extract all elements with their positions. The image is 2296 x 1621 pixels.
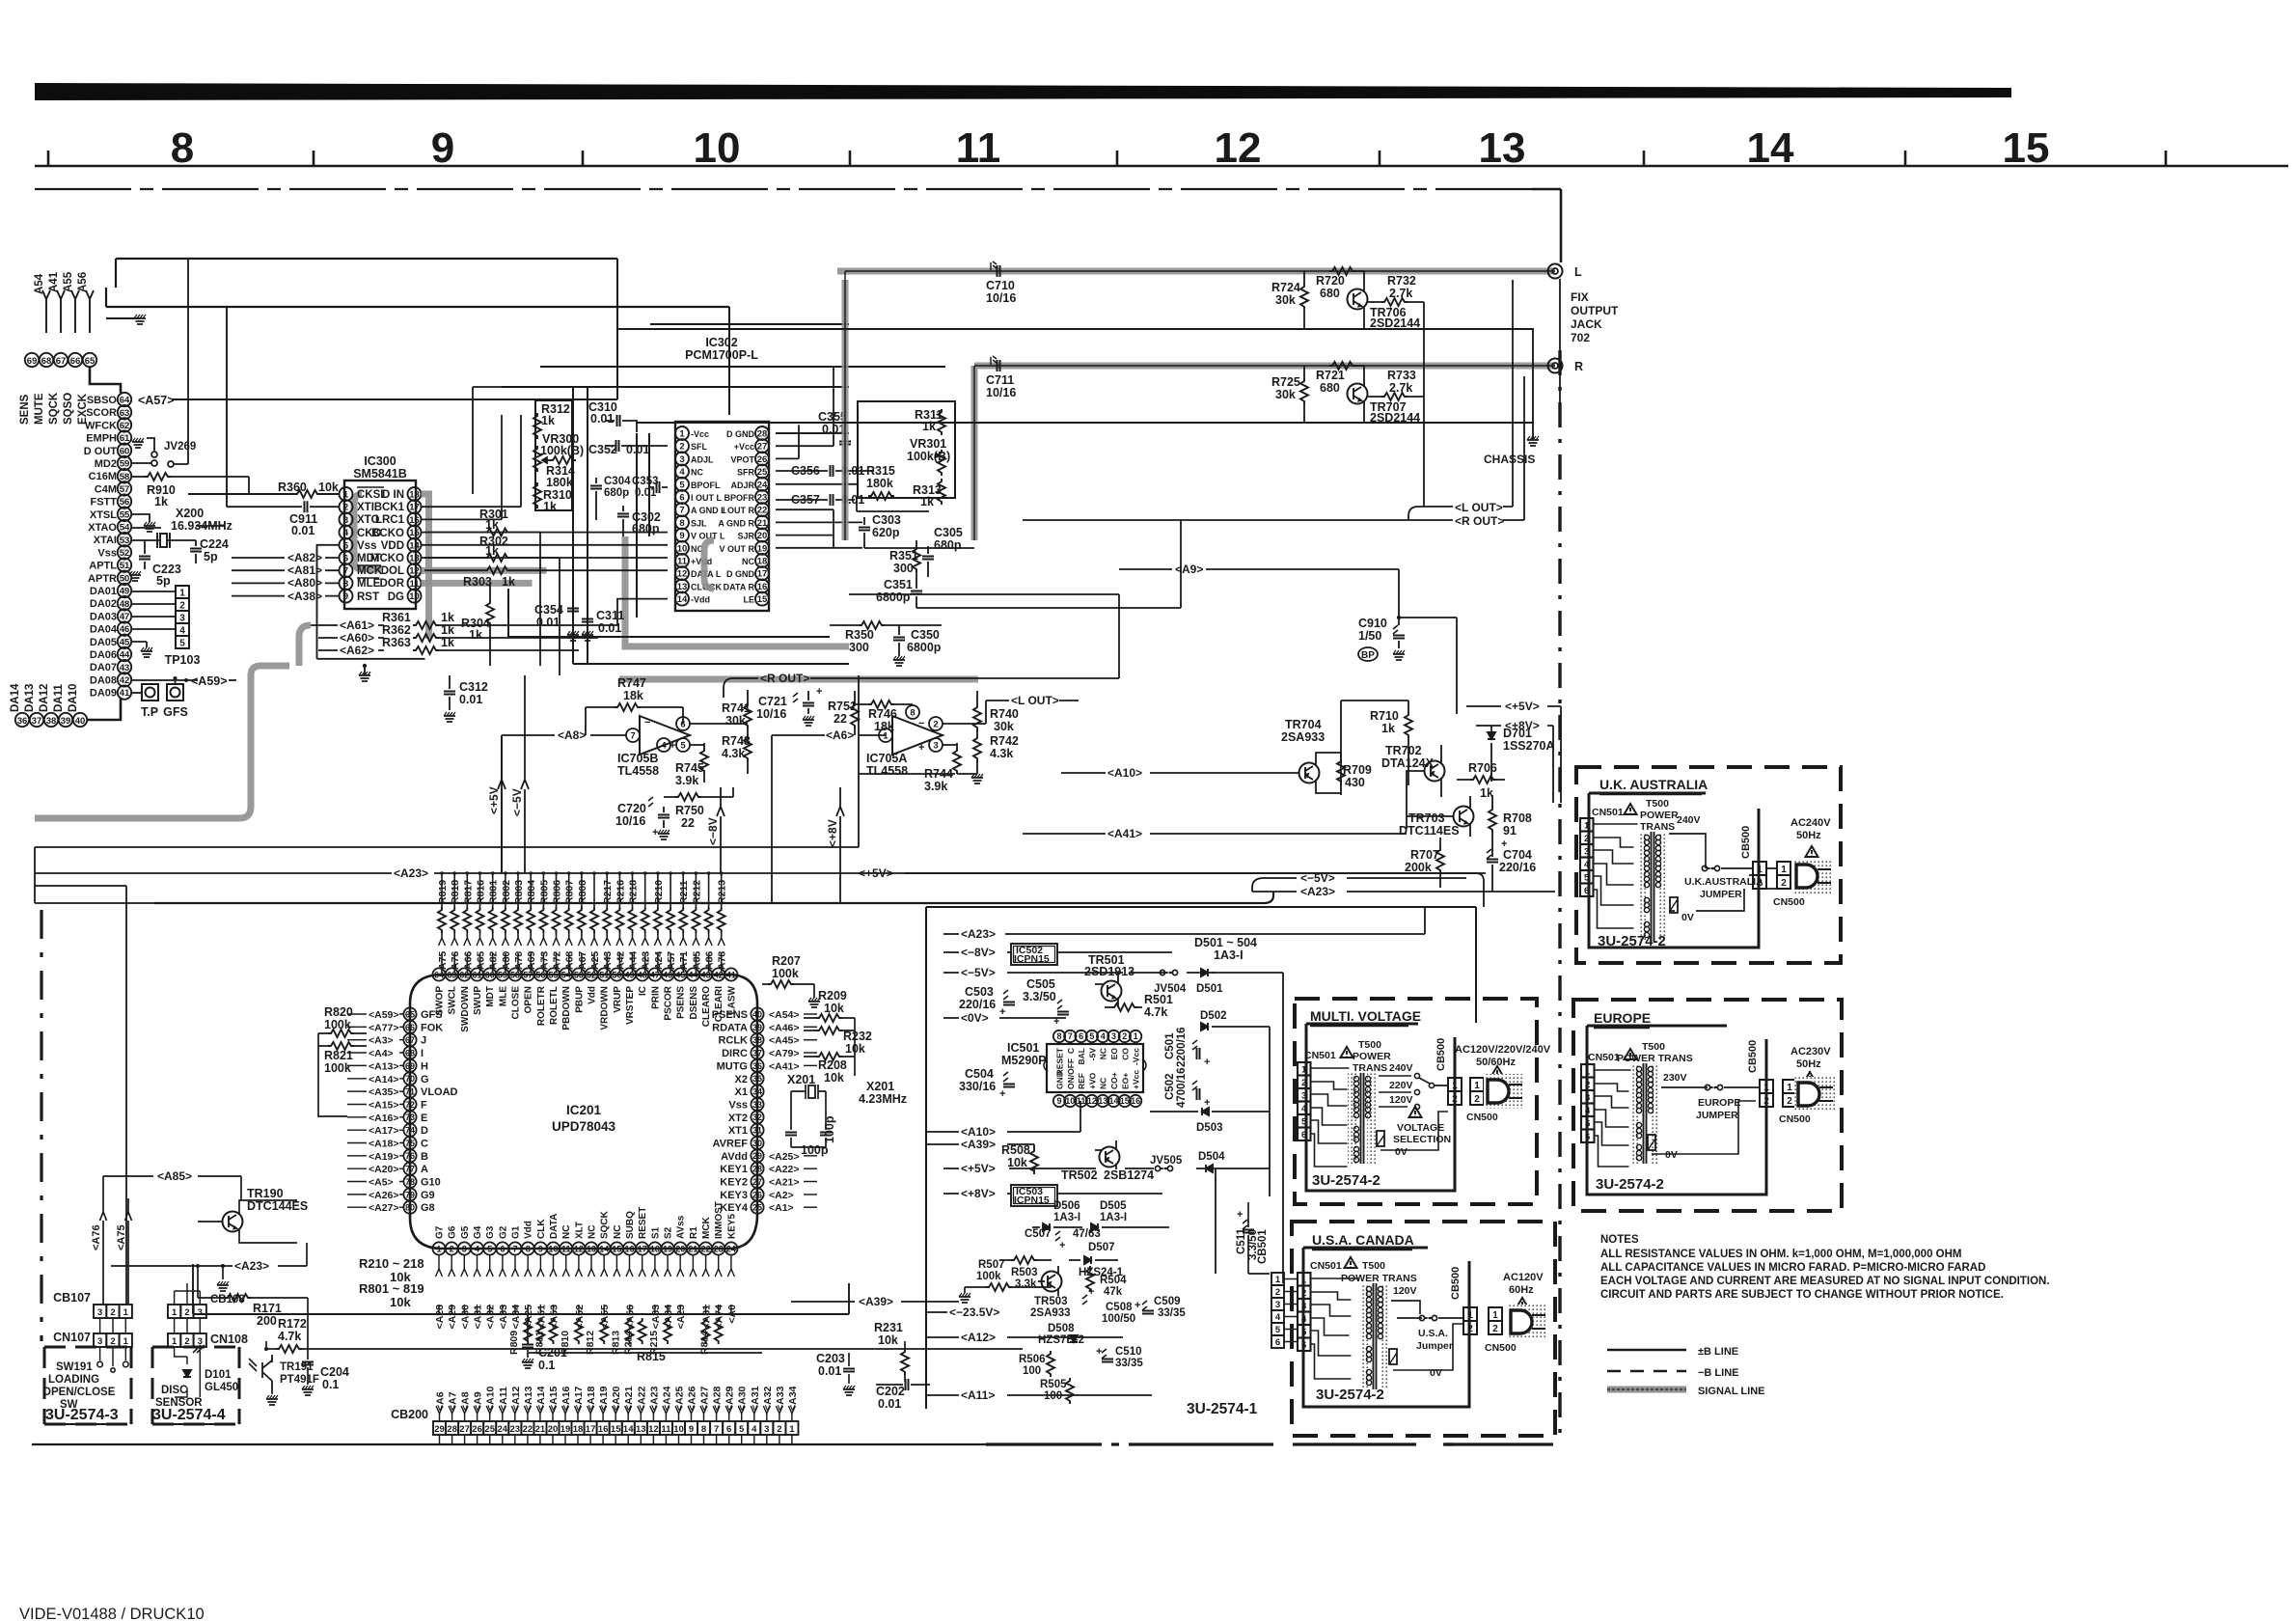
- resistor R706 1k: [1457, 761, 1505, 800]
- svg-text:7: 7: [343, 566, 348, 577]
- capacitor C310 0.01: [588, 400, 637, 432]
- svg-text:+: +: [1204, 1057, 1210, 1068]
- IC201 bottom pin row 1-24: [432, 1242, 737, 1254]
- svg-text:R172: R172: [278, 1317, 307, 1331]
- svg-text:+: +: [1059, 1240, 1065, 1251]
- svg-text:1: 1: [172, 1336, 178, 1347]
- CN501 wiring: [1311, 1068, 1350, 1167]
- svg-text:39: 39: [61, 716, 71, 727]
- svg-text:+Vcc: +Vcc: [734, 442, 754, 452]
- node A23: [943, 907, 1425, 941]
- svg-text:220/16: 220/16: [959, 998, 996, 1011]
- svg-text:DOL: DOL: [381, 565, 404, 577]
- svg-text:R816: R816: [476, 880, 487, 904]
- svg-text:1: 1: [172, 1307, 178, 1318]
- svg-text:B: B: [421, 1151, 428, 1163]
- svg-text:R733: R733: [1387, 369, 1416, 382]
- svg-text:<A14>: <A14>: [369, 1074, 399, 1085]
- svg-text:<A20: <A20: [611, 1386, 622, 1411]
- svg-text:4: 4: [475, 1244, 479, 1253]
- svg-text:1/50: 1/50: [1358, 629, 1381, 643]
- svg-text:<L OUT>: <L OUT>: [1011, 694, 1059, 707]
- svg-text:TL4558: TL4558: [866, 764, 908, 778]
- svg-text:R817: R817: [462, 880, 474, 904]
- svg-text:2: 2: [1787, 1096, 1792, 1107]
- svg-text:5: 5: [1089, 1031, 1094, 1041]
- svg-text:13: 13: [587, 1244, 596, 1253]
- svg-text:5: 5: [487, 1244, 492, 1253]
- svg-text:4: 4: [752, 1424, 757, 1435]
- svg-text:<A85>: <A85>: [157, 1169, 192, 1183]
- svg-text:100k(B): 100k(B): [540, 444, 584, 457]
- svg-text:<A75: <A75: [116, 1224, 127, 1250]
- wire bus corner x756: [728, 307, 730, 415]
- svg-text:CN500: CN500: [1485, 1342, 1517, 1354]
- svg-text:R724: R724: [1271, 281, 1300, 294]
- svg-text:17: 17: [409, 503, 420, 513]
- svg-text:+: +: [652, 827, 658, 838]
- svg-text:DA08: DA08: [90, 674, 117, 686]
- svg-text:1SS270A: 1SS270A: [1503, 739, 1555, 753]
- capacitor C511 3.3/50: [1236, 1202, 1270, 1274]
- label X201 4.23MHz: [859, 1080, 907, 1106]
- svg-text:55: 55: [120, 509, 130, 520]
- svg-text:26: 26: [472, 1424, 482, 1435]
- svg-text:A68: A68: [564, 951, 576, 970]
- svg-text:9: 9: [343, 591, 348, 602]
- resistor R710 1k: [1341, 701, 1412, 785]
- svg-text:15: 15: [2003, 124, 2050, 172]
- svg-text:13: 13: [409, 554, 420, 564]
- svg-text:R210: R210: [653, 880, 665, 904]
- svg-text:G9: G9: [421, 1190, 435, 1201]
- svg-text:100: 100: [1023, 1365, 1041, 1377]
- mains plug: [1507, 1305, 1547, 1339]
- svg-text:1A3-I: 1A3-I: [1053, 1212, 1080, 1223]
- svg-text:11: 11: [677, 557, 688, 567]
- svg-text:C508: C508: [1106, 1302, 1133, 1313]
- svg-text:R801 ~ 819: R801 ~ 819: [359, 1281, 424, 1296]
- svg-text:12: 12: [409, 566, 420, 577]
- resistor R508 10k: [1001, 1143, 1038, 1174]
- svg-text:C305: C305: [934, 526, 963, 539]
- svg-text:R363: R363: [382, 636, 411, 649]
- svg-text:34: 34: [752, 1087, 762, 1097]
- svg-text:1: 1: [436, 1244, 441, 1253]
- svg-text:+: +: [918, 742, 924, 754]
- transistor TR190 DTC144ES: [198, 1187, 308, 1243]
- svg-text:R802: R802: [501, 880, 512, 904]
- svg-text:1k: 1k: [920, 495, 934, 508]
- svg-text:44: 44: [688, 970, 697, 979]
- potentiometer VR300 100k(B): [533, 432, 584, 472]
- svg-text:60: 60: [485, 970, 495, 979]
- svg-text:0.01: 0.01: [598, 621, 621, 635]
- node A39: [926, 1138, 1034, 1151]
- svg-text:<A10>: <A10>: [961, 1125, 996, 1139]
- bottom board boundary dash-dot: [986, 1442, 1553, 1445]
- node A41: [1023, 827, 1407, 840]
- transistor TR704 2SA933: [1183, 718, 1341, 793]
- warning triangle: [1345, 1257, 1357, 1268]
- svg-text:R706: R706: [1468, 761, 1497, 775]
- svg-text:R720: R720: [1316, 274, 1345, 288]
- svg-text:12: 12: [677, 569, 688, 580]
- svg-text:H: H: [421, 1060, 428, 1072]
- inner board outline: [1587, 1026, 1766, 1195]
- svg-text:1: 1: [1301, 1275, 1307, 1285]
- svg-text:AVss: AVss: [676, 1215, 687, 1239]
- svg-text:2: 2: [1275, 1287, 1280, 1298]
- resistor R350 300: [830, 621, 942, 654]
- svg-text:LOADING: LOADING: [48, 1374, 99, 1386]
- sheet boundary dash line right: [1558, 279, 1561, 1436]
- svg-text:J: J: [421, 1035, 426, 1047]
- svg-text:<A30: <A30: [459, 1305, 471, 1330]
- label D501-504: [1194, 936, 1257, 962]
- svg-text:CB108: CB108: [210, 1294, 245, 1305]
- MULTI. VOLTAGE region box: [1295, 999, 1537, 1204]
- resistor R313 1k: [913, 479, 945, 508]
- svg-text:C351: C351: [884, 578, 913, 591]
- svg-text:G7: G7: [435, 1225, 446, 1239]
- svg-text:NC: NC: [588, 1225, 598, 1239]
- svg-text:R740: R740: [990, 707, 1019, 721]
- svg-text:−: −: [918, 718, 924, 729]
- svg-text:30k: 30k: [1275, 388, 1296, 401]
- CN501 wiring: [1594, 824, 1638, 928]
- svg-text:73: 73: [405, 1113, 415, 1122]
- svg-text:RDATA: RDATA: [712, 1022, 748, 1033]
- resistor R745 3.9k: [675, 743, 708, 787]
- svg-text:NC: NC: [561, 1225, 572, 1239]
- svg-text:MCK: MCK: [701, 1216, 712, 1239]
- photodiode D101 GL450: [175, 1345, 239, 1397]
- ground near XTSL: [132, 514, 155, 532]
- board label 3U-2574-2: [1316, 1387, 1384, 1403]
- svg-text:R210 ~ 218: R210 ~ 218: [359, 1256, 424, 1271]
- svg-text:<A41>: <A41>: [769, 1060, 800, 1072]
- capacitor C352 0.01: [588, 440, 668, 456]
- svg-text:5: 5: [679, 480, 685, 490]
- capacitor C204 0.1: [302, 1317, 349, 1395]
- mains plug: [1484, 1074, 1524, 1109]
- svg-text:<+8V>: <+8V>: [961, 1187, 996, 1200]
- connector CN500: [1466, 1078, 1498, 1123]
- svg-text:64: 64: [120, 396, 130, 406]
- svg-text:<A31: <A31: [473, 1305, 484, 1330]
- svg-text:NC: NC: [1099, 1078, 1108, 1089]
- svg-text:13: 13: [1479, 124, 1526, 172]
- svg-text:EMPH: EMPH: [86, 433, 117, 445]
- svg-text:8: 8: [701, 1424, 706, 1435]
- svg-text:<−23.5V>: <−23.5V>: [949, 1305, 999, 1319]
- svg-text:3: 3: [933, 741, 938, 752]
- svg-text:<A17: <A17: [573, 1386, 585, 1411]
- svg-text:8: 8: [1056, 1031, 1061, 1041]
- svg-text:D501 ~ 504: D501 ~ 504: [1194, 936, 1257, 949]
- svg-text:3: 3: [764, 1424, 769, 1435]
- svg-text:2: 2: [1301, 1078, 1306, 1088]
- svg-text:ICPN15: ICPN15: [1014, 953, 1050, 965]
- svg-text:<A10>: <A10>: [1107, 766, 1142, 780]
- svg-text:4.3k: 4.3k: [990, 747, 1013, 760]
- inner board outline: [1589, 793, 1759, 948]
- svg-text:1k: 1k: [541, 414, 555, 427]
- board label 3U-2574-4: [152, 1407, 226, 1424]
- svg-text:100/50: 100/50: [1102, 1313, 1135, 1325]
- svg-text:<A19>: <A19>: [369, 1151, 399, 1163]
- svg-text:DATA R: DATA R: [724, 582, 755, 591]
- svg-text:23: 23: [714, 1244, 724, 1253]
- svg-text:54: 54: [561, 970, 571, 979]
- title U.K. AUSTRALIA: [1599, 777, 1708, 794]
- svg-text:70: 70: [405, 1074, 415, 1084]
- svg-text:1: 1: [1757, 865, 1763, 875]
- svg-text:DA07: DA07: [90, 662, 117, 673]
- svg-text:30k: 30k: [1275, 293, 1296, 307]
- svg-text:EO: EO: [1109, 1048, 1119, 1060]
- svg-text:680p: 680p: [604, 487, 629, 499]
- transistor TR707 2SD2144: [1348, 366, 1421, 425]
- svg-text:3: 3: [179, 614, 185, 624]
- resistor R503 3.3k: [999, 1256, 1052, 1290]
- svg-text:40: 40: [75, 716, 86, 727]
- U.S.A. CANADA region box: [1292, 1222, 1555, 1436]
- svg-text:A24: A24: [653, 951, 665, 970]
- svg-text:+Vcc: +Vcc: [1132, 1070, 1141, 1089]
- diode D505 1A3-I: [1091, 1200, 1169, 1231]
- resistor R310 1k: [533, 482, 572, 513]
- svg-text:4.7k: 4.7k: [278, 1330, 301, 1343]
- svg-text:A23: A23: [641, 951, 652, 970]
- resistor R744 3.9k: [924, 743, 983, 793]
- resistor R815: [529, 1350, 762, 1363]
- svg-text:1: 1: [343, 490, 349, 501]
- node -8V: [943, 946, 1011, 959]
- svg-text:R350: R350: [845, 628, 874, 642]
- svg-text:SBSO: SBSO: [87, 395, 118, 406]
- board edge dashed left: [40, 910, 42, 1341]
- svg-text:D507: D507: [1088, 1242, 1115, 1253]
- svg-text:2: 2: [110, 1307, 115, 1318]
- svg-text:BAL: BAL: [1077, 1048, 1086, 1064]
- capacitor C704 220/16: [1487, 838, 1536, 892]
- svg-text:R809: R809: [508, 1331, 520, 1355]
- svg-text:A86: A86: [704, 951, 716, 970]
- svg-text:38: 38: [752, 1035, 762, 1045]
- svg-text:Vss: Vss: [728, 1100, 748, 1112]
- svg-text:DA02: DA02: [90, 598, 117, 610]
- node A9: [1119, 563, 1399, 576]
- resistor R171 200: [198, 1266, 308, 1328]
- warning triangle: [1625, 804, 1637, 814]
- svg-text:100k: 100k: [324, 1061, 351, 1075]
- svg-text:0.01: 0.01: [818, 1364, 841, 1378]
- -8V rail vertical: [706, 787, 724, 873]
- svg-text:3: 3: [1301, 1301, 1306, 1311]
- svg-text:OPEN: OPEN: [524, 986, 534, 1013]
- resistor R315 180k: [866, 464, 895, 500]
- mains plug: [1792, 859, 1833, 893]
- svg-text:<A59>: <A59>: [191, 674, 228, 688]
- svg-text:77: 77: [405, 1165, 415, 1174]
- svg-text:BCKO: BCKO: [371, 528, 404, 539]
- svg-text:<A3>: <A3>: [369, 1035, 394, 1047]
- svg-text:<A29: <A29: [724, 1386, 736, 1411]
- svg-text:D501: D501: [1196, 983, 1223, 995]
- svg-text:10k: 10k: [390, 1295, 411, 1309]
- crystal X200: [132, 507, 232, 548]
- svg-text:14: 14: [599, 1244, 609, 1253]
- svg-text:0.01: 0.01: [459, 693, 482, 706]
- svg-text:R231: R231: [874, 1321, 903, 1334]
- svg-text:C201: C201: [538, 1346, 567, 1360]
- svg-text:<A30: <A30: [737, 1386, 749, 1411]
- svg-text:24: 24: [498, 1424, 508, 1435]
- svg-text:RESET: RESET: [638, 1207, 648, 1239]
- top heavy bar: [35, 83, 2011, 100]
- svg-text:<L OUT>: <L OUT>: [1455, 501, 1503, 514]
- svg-text:<A79>: <A79>: [769, 1048, 800, 1059]
- svg-text:18: 18: [650, 1244, 660, 1253]
- svg-text:6: 6: [1079, 1031, 1083, 1041]
- svg-text:TL4558: TL4558: [617, 764, 659, 778]
- svg-text:T.P: T.P: [141, 705, 158, 719]
- svg-text:MCKO: MCKO: [370, 553, 404, 564]
- svg-text:DATA: DATA: [549, 1214, 560, 1239]
- svg-text:6: 6: [343, 554, 348, 564]
- svg-text:CN501: CN501: [1588, 1052, 1620, 1063]
- svg-text:BPOFR: BPOFR: [724, 493, 755, 503]
- svg-text:TP103: TP103: [165, 653, 201, 667]
- svg-text:I: I: [421, 1048, 424, 1059]
- svg-text:120V: 120V: [1389, 1094, 1413, 1106]
- svg-text:25: 25: [484, 1424, 495, 1435]
- resistor R303 1k: [424, 566, 668, 589]
- svg-text:3U-2574-4: 3U-2574-4: [152, 1407, 226, 1423]
- svg-text:7: 7: [630, 731, 635, 742]
- svg-text:7: 7: [1068, 1031, 1073, 1041]
- svg-text:JACK: JACK: [1571, 317, 1602, 331]
- resistor R506 100: [1019, 1351, 1054, 1377]
- svg-text:DOR: DOR: [379, 578, 404, 590]
- svg-text:IC201: IC201: [566, 1103, 602, 1117]
- IC201 top pin row 64-41: [432, 968, 737, 980]
- svg-text:50Hz: 50Hz: [1796, 830, 1821, 841]
- node 0V: [943, 1011, 1066, 1025]
- svg-text:9: 9: [689, 1424, 694, 1435]
- 230V tap with jumper EUROPE: [1661, 1072, 1760, 1121]
- ground near pin 65: [90, 315, 146, 324]
- svg-text:<A13>: <A13>: [369, 1060, 399, 1072]
- svg-text:DA14: DA14: [10, 683, 21, 712]
- svg-text:15: 15: [409, 528, 420, 538]
- wire pin40 to DA09 column: [87, 698, 121, 720]
- svg-text:VLOAD: VLOAD: [421, 1086, 458, 1098]
- svg-text:3: 3: [1585, 1092, 1590, 1103]
- signal line jog at IC300 DIN bus: [619, 536, 978, 679]
- capacitor C507 47/63: [1025, 1228, 1101, 1251]
- resistor R505 100: [1040, 1378, 1074, 1404]
- svg-text:5p: 5p: [156, 574, 171, 588]
- capacitor C710 10/16: [986, 261, 1016, 305]
- svg-text:<A61>: <A61>: [340, 618, 374, 632]
- svg-text:1: 1: [1134, 1031, 1138, 1041]
- svg-text:CN107: CN107: [53, 1331, 91, 1344]
- svg-text:14: 14: [623, 1424, 634, 1435]
- wires CB500-CN500: [1749, 868, 1777, 889]
- black return lines to jacks: [617, 329, 1534, 423]
- svg-text:TR503: TR503: [1034, 1296, 1068, 1307]
- svg-text:C507: C507: [1025, 1228, 1052, 1240]
- capacitor C711 10/16: [986, 356, 1016, 399]
- wire bus between IC300 and IC302: [422, 387, 850, 675]
- svg-text:TR502: TR502: [1061, 1168, 1098, 1182]
- svg-text:R303: R303: [463, 575, 492, 589]
- svg-text:<A2>: <A2>: [769, 1190, 794, 1201]
- svg-text:100k: 100k: [324, 1018, 351, 1031]
- svg-text:RESET: RESET: [1055, 1047, 1065, 1075]
- capacitor C305 680p: [922, 526, 963, 577]
- node -5V arrow: [1252, 871, 1466, 892]
- svg-text:KEY5: KEY5: [726, 1213, 737, 1239]
- svg-text:-Vcc: -Vcc: [691, 429, 709, 439]
- svg-text:29: 29: [434, 1424, 445, 1435]
- resistor R740 30k: [973, 691, 1019, 735]
- svg-text:36: 36: [17, 716, 28, 727]
- capacitor C504 330/16: [959, 1067, 1015, 1100]
- svg-text:D502: D502: [1200, 1010, 1227, 1022]
- svg-text:<A16>: <A16>: [369, 1113, 399, 1124]
- 0V tap: [1389, 1324, 1463, 1379]
- svg-text:DTC114ES: DTC114ES: [1399, 824, 1460, 838]
- svg-text:XTAI: XTAI: [94, 535, 117, 546]
- bottom resistors R809-R815: [508, 1318, 723, 1355]
- svg-text:GND: GND: [1055, 1071, 1065, 1089]
- svg-text:G1: G1: [511, 1225, 522, 1239]
- svg-text:JV269: JV269: [164, 441, 196, 453]
- svg-text:<A62>: <A62>: [340, 644, 374, 657]
- svg-text:A42: A42: [615, 951, 626, 970]
- svg-text:PSENS: PSENS: [712, 1009, 748, 1021]
- svg-text:R501: R501: [1144, 993, 1173, 1006]
- svg-text:21: 21: [535, 1424, 546, 1435]
- svg-text:<A32: <A32: [485, 1305, 497, 1330]
- svg-text:IC300: IC300: [364, 454, 396, 468]
- svg-text:55: 55: [548, 970, 558, 979]
- svg-text:1: 1: [1467, 1310, 1473, 1321]
- svg-text:Vdd: Vdd: [588, 986, 598, 1004]
- svg-text:R815: R815: [637, 1350, 666, 1363]
- svg-text:1k: 1k: [1381, 722, 1395, 735]
- IC201 left pin column 65-80: [347, 1007, 458, 1214]
- svg-text:<A21>: <A21>: [769, 1177, 800, 1189]
- svg-text:A82: A82: [488, 951, 500, 970]
- capacitor C508 100/50: [1082, 1286, 1135, 1325]
- svg-text:33/35: 33/35: [1115, 1358, 1143, 1369]
- chassis ground: [1484, 329, 1539, 466]
- svg-text:R361: R361: [382, 611, 411, 624]
- svg-text:4: 4: [679, 467, 685, 478]
- svg-text:2: 2: [1122, 1031, 1127, 1041]
- svg-text:24: 24: [726, 1244, 736, 1253]
- svg-text:PSENS: PSENS: [676, 986, 687, 1019]
- svg-text:CN500: CN500: [1773, 896, 1805, 908]
- svg-text:2.7k: 2.7k: [1389, 287, 1412, 300]
- svg-text:R818: R818: [450, 880, 461, 904]
- svg-text:5: 5: [680, 741, 686, 752]
